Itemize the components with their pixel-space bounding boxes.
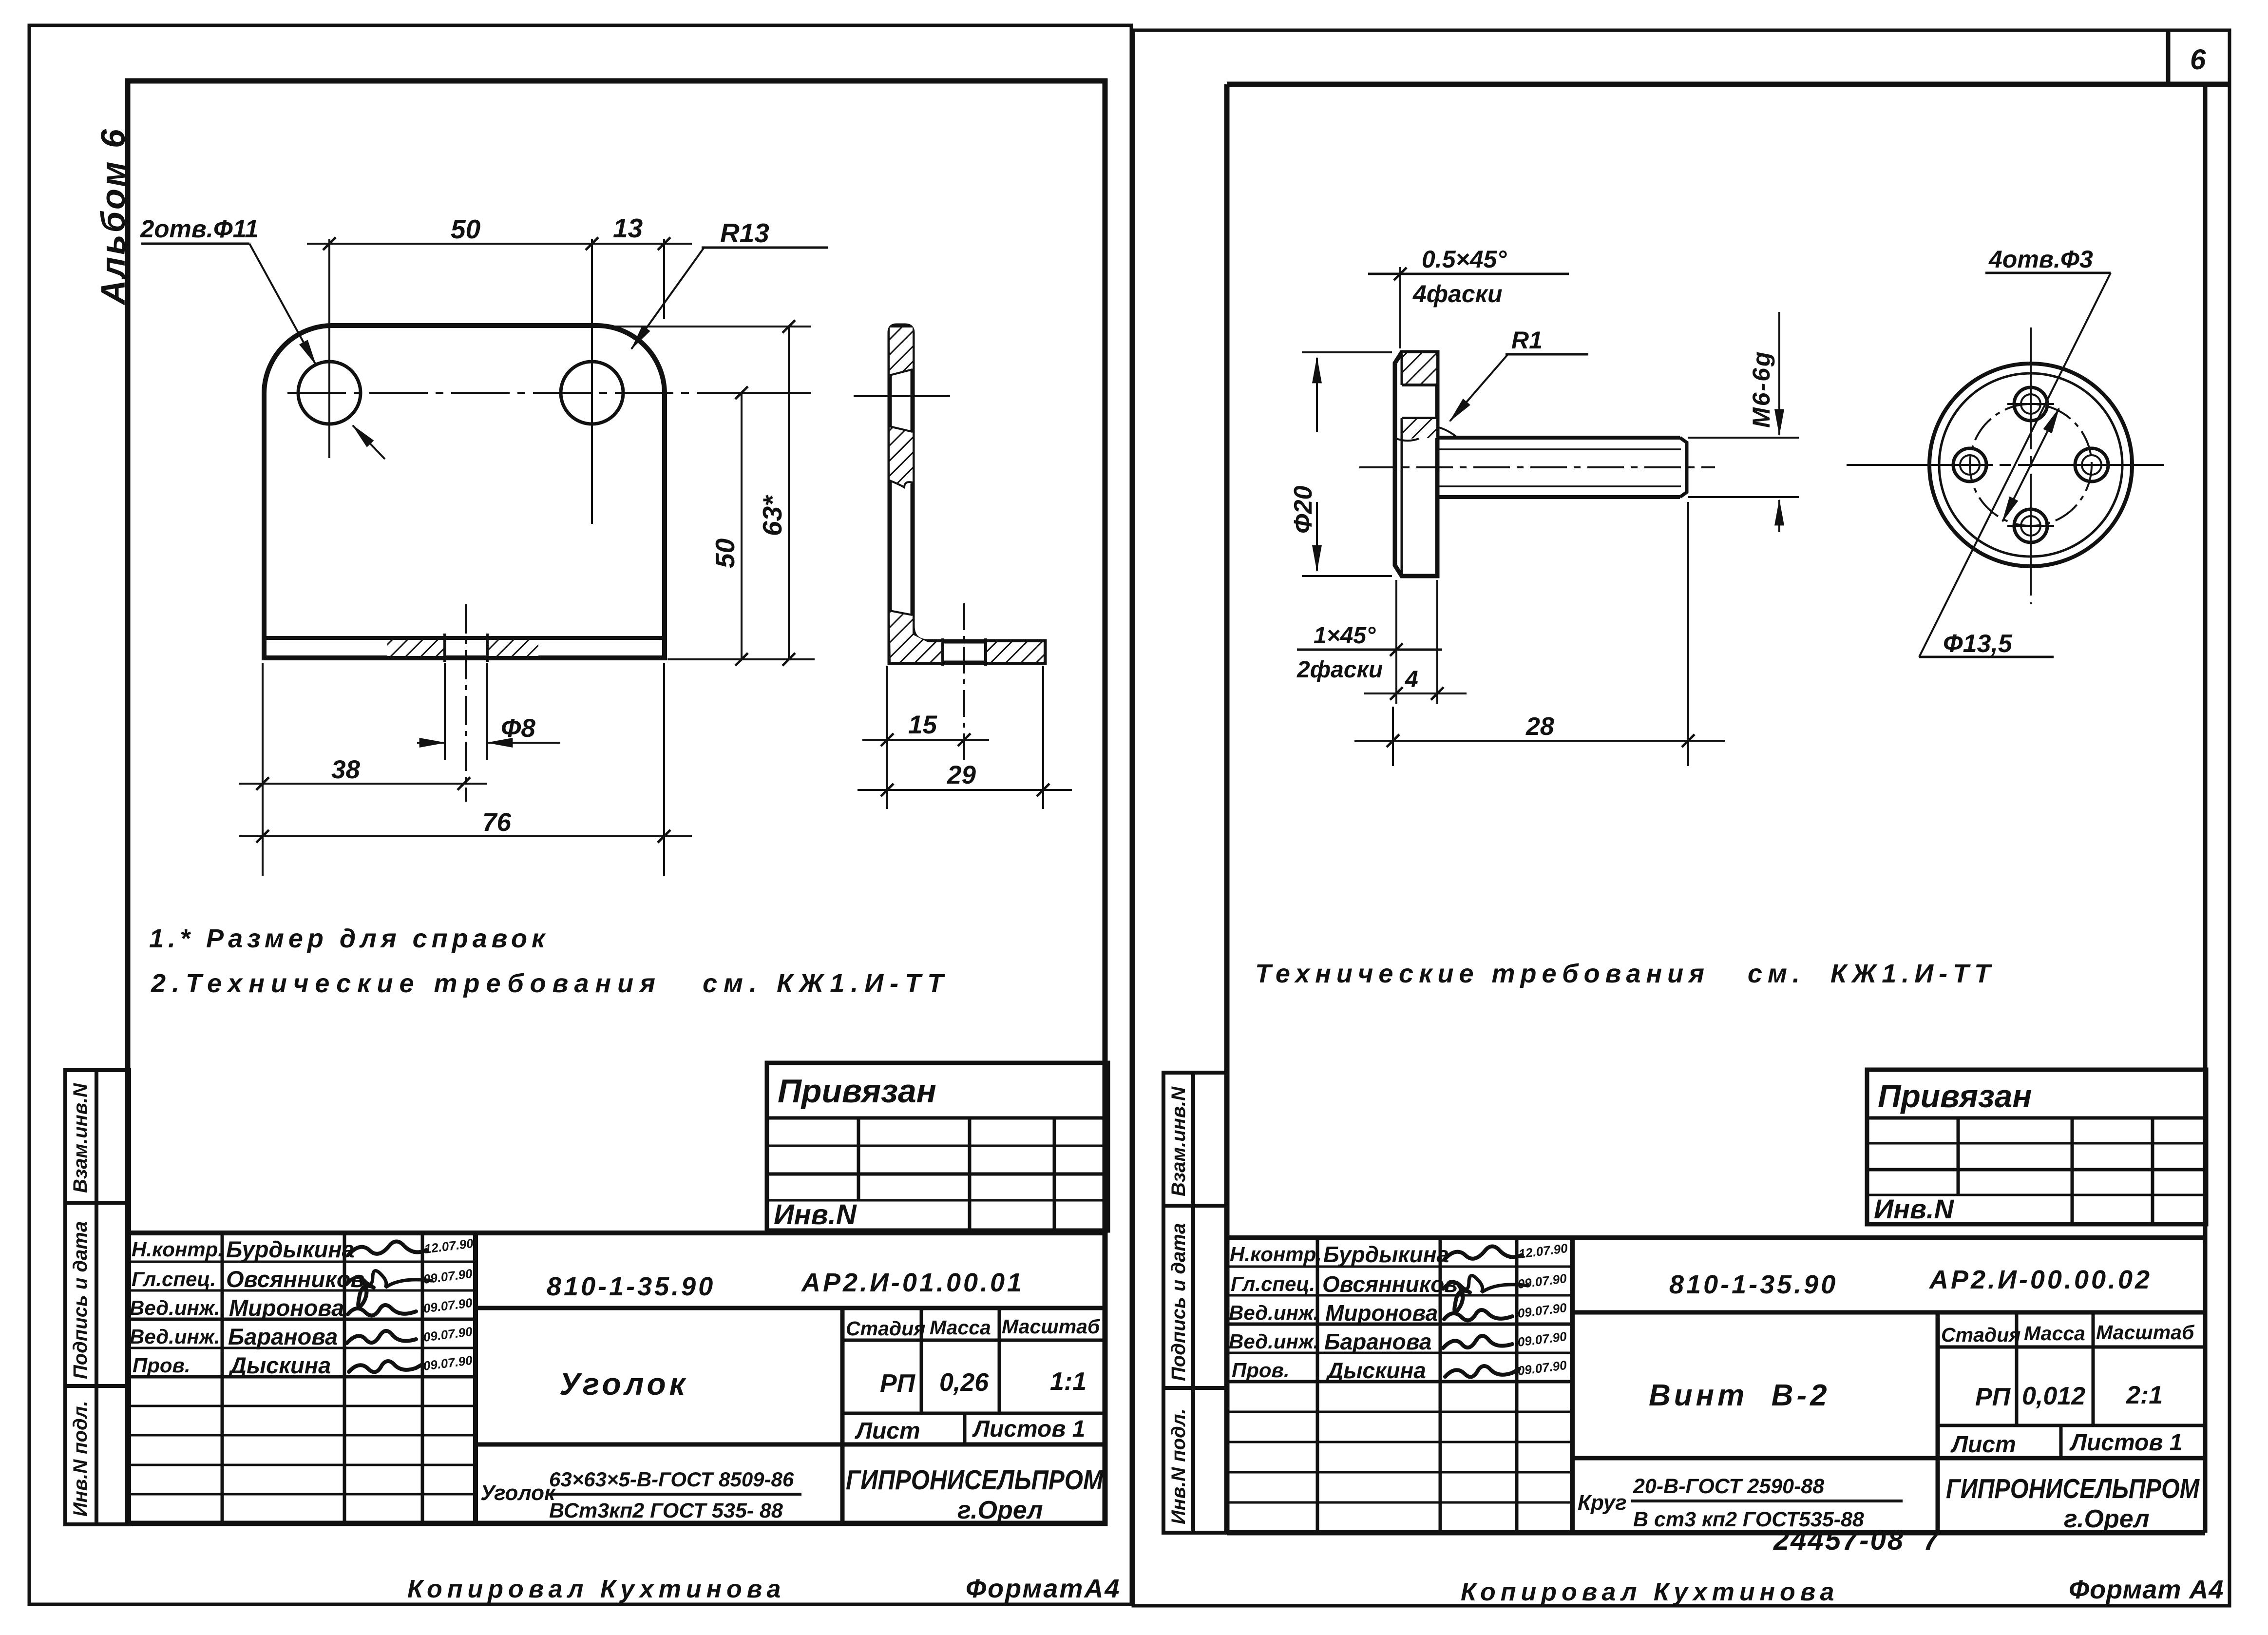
svg-text:М6-6g: М6-6g	[1748, 350, 1775, 428]
svg-text:2:1: 2:1	[2126, 1381, 2163, 1409]
svg-text:Баранова: Баранова	[228, 1324, 338, 1349]
svg-text:Овсянников: Овсянников	[1322, 1271, 1458, 1297]
svg-text:г.Орел: г.Орел	[957, 1496, 1043, 1524]
svg-text:Взам.инв.N: Взам.инв.N	[1168, 1086, 1189, 1196]
svg-text:1.* Размер для справок: 1.* Размер для справок	[149, 924, 549, 953]
svg-text:29: 29	[947, 761, 976, 789]
svg-text:Н.контр.: Н.контр.	[1230, 1243, 1322, 1266]
svg-text:АР2.И-00.00.02: АР2.И-00.00.02	[1928, 1265, 2152, 1294]
svg-text:Инв.N: Инв.N	[1874, 1193, 1954, 1224]
svg-text:Пров.: Пров.	[133, 1354, 191, 1377]
svg-text:Технические требования см.: Технические требования см. КЖ1.И-ТТ	[1255, 959, 1996, 988]
svg-text:Подпись и дата: Подпись и дата	[70, 1221, 91, 1379]
svg-text:Н.контр.: Н.контр.	[132, 1238, 224, 1261]
svg-text:Миронова: Миронова	[229, 1295, 344, 1321]
svg-text:Листов 1: Листов 1	[2069, 1430, 2182, 1456]
svg-text:Инв.N подл.: Инв.N подл.	[1168, 1408, 1189, 1524]
svg-text:Винт В-2: Винт В-2	[1649, 1379, 1830, 1412]
svg-text:Дыскина: Дыскина	[1325, 1358, 1426, 1383]
svg-text:63*: 63*	[757, 495, 787, 536]
svg-text:Ф8: Ф8	[501, 714, 535, 743]
svg-text:Листов 1: Листов 1	[972, 1416, 1085, 1442]
svg-text:Привязан: Привязан	[778, 1073, 936, 1110]
svg-text:Ф13,5: Ф13,5	[1943, 630, 2013, 658]
svg-text:Вед.инж.: Вед.инж.	[130, 1296, 220, 1319]
svg-text:63×63×5-В-ГОСТ 8509-86: 63×63×5-В-ГОСТ 8509-86	[549, 1468, 794, 1491]
svg-text:Дыскина: Дыскина	[228, 1352, 331, 1378]
svg-text:4отв.Ф3: 4отв.Ф3	[1988, 246, 2093, 273]
svg-text:Гл.спец.: Гл.спец.	[1231, 1272, 1315, 1295]
svg-text:4фаски: 4фаски	[1412, 280, 1503, 308]
svg-text:1×45°: 1×45°	[1314, 623, 1376, 649]
svg-text:6: 6	[2190, 44, 2206, 76]
svg-text:0,26: 0,26	[939, 1368, 989, 1397]
svg-text:РП: РП	[1975, 1383, 2011, 1411]
svg-text:Копировал Кухтинова: Копировал Кухтинова	[1461, 1578, 1839, 1606]
svg-text:Взам.инв.N: Взам.инв.N	[70, 1083, 91, 1193]
svg-text:24457-08 7: 24457-08 7	[1773, 1524, 1941, 1556]
svg-text:50: 50	[710, 538, 740, 568]
svg-text:810-1-35.90: 810-1-35.90	[1669, 1270, 1838, 1299]
svg-text:50: 50	[451, 214, 481, 244]
svg-text:4: 4	[1405, 667, 1418, 692]
svg-text:Вед.инж.: Вед.инж.	[1229, 1330, 1319, 1353]
svg-text:Подпись и дата: Подпись и дата	[1168, 1223, 1189, 1381]
svg-text:Ф20: Ф20	[1289, 485, 1317, 534]
svg-text:Пров.: Пров.	[1232, 1359, 1290, 1382]
svg-text:Масса: Масса	[930, 1316, 991, 1339]
svg-text:Лист: Лист	[1950, 1432, 2016, 1458]
svg-text:Инв.N подл.: Инв.N подл.	[70, 1401, 91, 1517]
svg-text:15: 15	[908, 711, 937, 739]
svg-text:Гл.спец.: Гл.спец.	[132, 1268, 216, 1290]
svg-text:13: 13	[613, 213, 643, 243]
svg-text:28: 28	[1525, 712, 1554, 741]
svg-text:Копировал Кухтинова: Копировал Кухтинова	[407, 1575, 785, 1603]
svg-text:Привязан: Привязан	[1878, 1078, 2032, 1114]
svg-text:Миронова: Миронова	[1325, 1300, 1438, 1326]
svg-text:АР2.И-01.00.01: АР2.И-01.00.01	[800, 1268, 1024, 1297]
svg-text:0,012: 0,012	[2022, 1382, 2085, 1410]
svg-text:Формат А4: Формат А4	[2069, 1575, 2224, 1604]
svg-text:Масштаб: Масштаб	[1002, 1315, 1101, 1338]
svg-text:Стадия: Стадия	[846, 1317, 925, 1340]
svg-text:ВСт3кп2 ГОСТ 535- 88: ВСт3кп2 ГОСТ 535- 88	[549, 1499, 783, 1522]
svg-text:РП: РП	[880, 1369, 916, 1398]
svg-text:г.Орел: г.Орел	[2064, 1505, 2150, 1533]
svg-text:R1: R1	[1511, 327, 1543, 354]
svg-text:2.Технические требования см.: 2.Технические требования см. КЖ1.И-ТТ	[151, 969, 950, 998]
svg-text:20-В-ГОСТ 2590-88: 20-В-ГОСТ 2590-88	[1633, 1475, 1824, 1498]
svg-text:R13: R13	[720, 218, 769, 248]
svg-text:ГИПРОНИСЕЛЬПРОМ: ГИПРОНИСЕЛЬПРОМ	[846, 1464, 1104, 1496]
svg-text:ФорматА4: ФорматА4	[966, 1574, 1121, 1603]
svg-text:Масса: Масса	[2024, 1322, 2085, 1345]
svg-text:Бурдыкина: Бурдыкина	[1323, 1242, 1449, 1267]
svg-text:Овсянников: Овсянников	[226, 1266, 364, 1292]
svg-text:2фаски: 2фаски	[1296, 657, 1383, 683]
svg-text:Бурдыкина: Бурдыкина	[226, 1236, 355, 1262]
svg-text:1:1: 1:1	[1050, 1367, 1086, 1396]
svg-text:2отв.Ф11: 2отв.Ф11	[140, 215, 259, 243]
svg-text:Вед.инж.: Вед.инж.	[1229, 1301, 1319, 1324]
svg-text:Круг: Круг	[1578, 1491, 1627, 1515]
svg-text:Лист: Лист	[855, 1418, 920, 1444]
svg-text:76: 76	[482, 808, 511, 837]
svg-text:0.5×45°: 0.5×45°	[1422, 246, 1507, 273]
svg-text:Уголок: Уголок	[480, 1481, 556, 1505]
svg-text:ГИПРОНИСЕЛЬПРОМ: ГИПРОНИСЕЛЬПРОМ	[1946, 1473, 2200, 1504]
svg-text:Инв.N: Инв.N	[774, 1199, 857, 1231]
svg-text:Баранова: Баранова	[1324, 1329, 1431, 1354]
svg-text:Стадия: Стадия	[1941, 1324, 2020, 1346]
svg-text:Масштаб: Масштаб	[2096, 1321, 2195, 1344]
svg-text:Уголок: Уголок	[559, 1366, 688, 1402]
svg-text:Вед.инж.: Вед.инж.	[130, 1325, 220, 1348]
svg-text:38: 38	[331, 755, 360, 784]
svg-text:810-1-35.90: 810-1-35.90	[547, 1272, 715, 1301]
svg-text:Альбом 6: Альбом 6	[94, 127, 132, 306]
